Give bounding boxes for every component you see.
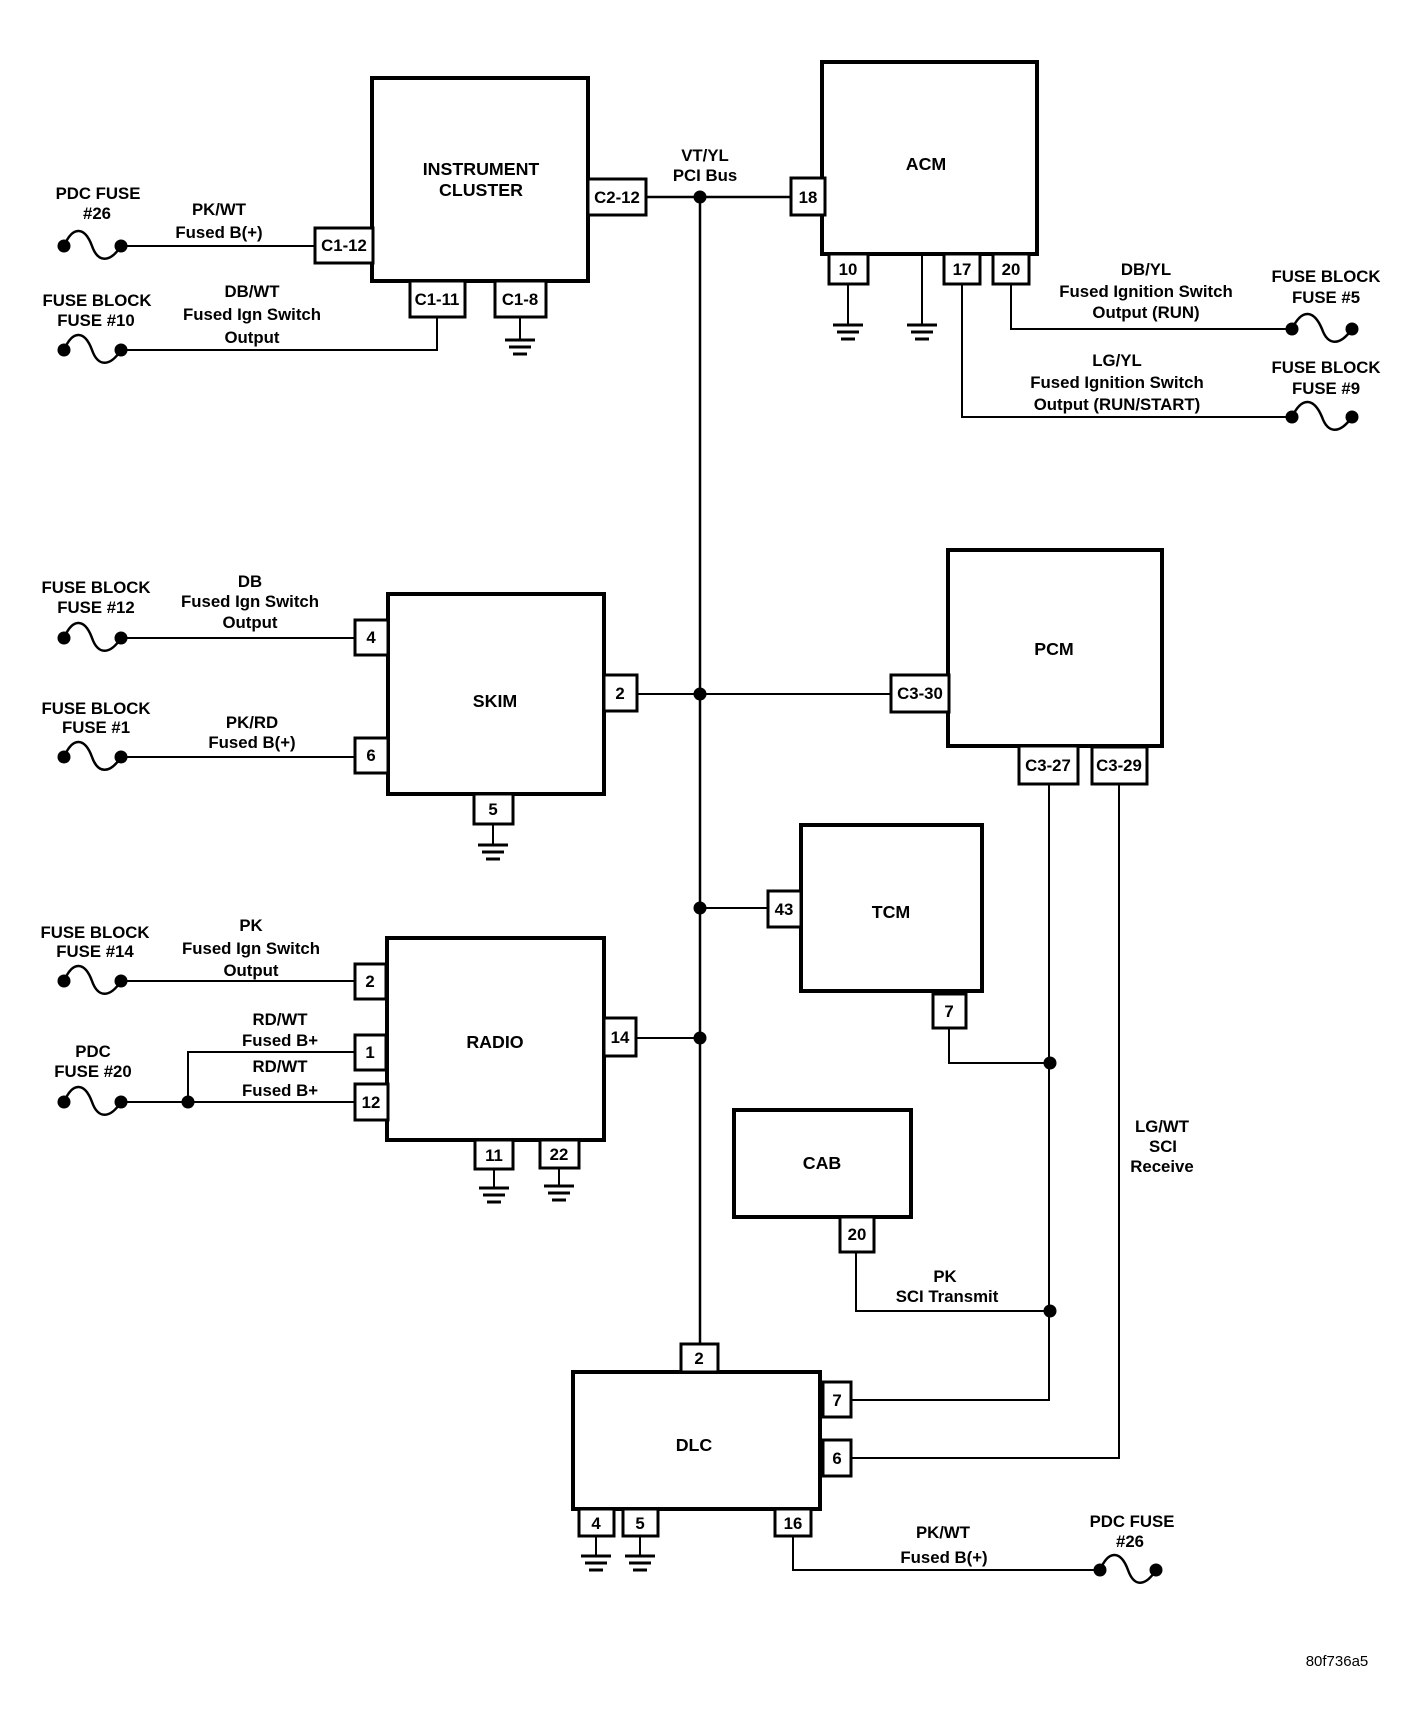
svg-text:FUSE BLOCK: FUSE BLOCK (41, 578, 150, 597)
svg-text:5: 5 (635, 1514, 644, 1533)
pin 5 (SKIM) (474, 794, 513, 824)
wire PCI bus : SKIM pin 2 to PCM C3-30 (637, 693, 891, 695)
svg-text:4: 4 (366, 628, 376, 647)
svg-text:#26: #26 (1116, 1532, 1144, 1551)
module ACM (822, 62, 1037, 254)
fuse FUSE BLOCK FUSE #1 (58, 742, 128, 770)
node SCI junction CAB transmit (1044, 1305, 1057, 1318)
svg-text:43: 43 (775, 900, 794, 919)
svg-text:Output: Output (224, 961, 279, 980)
svg-text:4: 4 (591, 1514, 601, 1533)
module TCM (801, 825, 982, 991)
svg-text:SCI Transmit: SCI Transmit (896, 1287, 999, 1306)
pin 43 (TCM) (768, 891, 801, 927)
svg-text:RD/WT: RD/WT (253, 1010, 309, 1029)
svg-text:6: 6 (832, 1449, 841, 1468)
pin 2 (DLC) (681, 1344, 718, 1372)
svg-text:FUSE BLOCK: FUSE BLOCK (42, 291, 151, 310)
svg-text:FUSE BLOCK: FUSE BLOCK (40, 923, 149, 942)
pin C1-11 (cluster) (410, 281, 465, 317)
svg-text:Fused Ignition Switch: Fused Ignition Switch (1030, 373, 1203, 392)
svg-text:VT/YL: VT/YL (681, 146, 729, 165)
ground DLC pin 5 (625, 1556, 655, 1570)
pin 10 (ACM) (829, 254, 868, 284)
pin 20 (CAB) (840, 1217, 874, 1252)
wire DB Fused Ign Switch Output : fuse 12 to SKIM pin 4 (122, 637, 355, 639)
pin 4 (SKIM) (355, 620, 388, 655)
fuse PDC FUSE #26 (top left) (58, 231, 128, 259)
pin 20 (ACM) (993, 254, 1029, 284)
ground RADIO pin 22 (544, 1186, 574, 1200)
svg-text:FUSE #10: FUSE #10 (57, 311, 134, 330)
wire cluster C1-8 to ground (519, 317, 521, 340)
svg-text:11: 11 (485, 1146, 503, 1165)
pin C2-12 (cluster) (588, 179, 646, 215)
pin 6 (DLC) (823, 1440, 851, 1476)
svg-text:7: 7 (832, 1391, 841, 1410)
wire PK Fused Ign Switch Output : fuse 14 to RADIO pin 2 (122, 980, 355, 982)
pin 22 (RADIO) (540, 1140, 579, 1168)
svg-text:C3-29: C3-29 (1096, 756, 1142, 775)
wire VT/YL PCI bus vertical trunk (699, 197, 702, 1344)
fuse PDC FUSE #26 (bottom) (1094, 1555, 1163, 1583)
fuse FUSE BLOCK FUSE #5 (1286, 314, 1359, 342)
wire DB/YL Fused Ignition Switch Output (RUN) : ACM 20 to fuse 5 (1011, 284, 1292, 329)
svg-text:PK: PK (239, 916, 262, 935)
svg-text:C2-12: C2-12 (594, 188, 640, 207)
svg-text:Fused B(+): Fused B(+) (175, 223, 262, 242)
svg-text:#26: #26 (83, 204, 111, 223)
svg-text:C3-30: C3-30 (897, 684, 943, 703)
wire PK SCI Transmit : CAB pin 20 to C3-27 line (856, 1252, 1050, 1311)
svg-text:22: 22 (550, 1145, 569, 1164)
svg-text:INSTRUMENT: INSTRUMENT (423, 159, 540, 179)
svg-text:C1-12: C1-12 (321, 236, 367, 255)
wire RD/WT Fused B+ branch to RADIO pin 1 (188, 1052, 355, 1102)
ground cluster C1-8 (505, 340, 535, 354)
pin 5 (DLC) (623, 1509, 658, 1536)
fuse FUSE BLOCK FUSE #10 (58, 335, 128, 363)
svg-text:Fused Ign Switch: Fused Ign Switch (181, 592, 319, 611)
wire LG/WT SCI Receive : PCM C3-29 to DLC pin 6 (851, 784, 1119, 1458)
wire SKIM pin 5 to ground (492, 824, 494, 845)
svg-text:PDC: PDC (75, 1042, 110, 1061)
wire PCI bus : RADIO pin 14 to trunk (636, 1037, 700, 1039)
svg-text:2: 2 (615, 684, 624, 703)
pin 2 (SKIM) (604, 675, 637, 711)
svg-text:FUSE #14: FUSE #14 (56, 942, 134, 961)
svg-text:DB: DB (238, 572, 262, 591)
svg-text:DLC: DLC (676, 1435, 713, 1455)
svg-text:12: 12 (362, 1093, 381, 1112)
svg-text:17: 17 (953, 260, 972, 279)
svg-text:ACM: ACM (906, 154, 947, 174)
svg-text:PK/RD: PK/RD (226, 713, 278, 732)
module INSTRUMENT CLUSTER (372, 78, 588, 281)
pin 12 (RADIO) (355, 1084, 388, 1120)
svg-text:Fused Ign Switch: Fused Ign Switch (182, 939, 320, 958)
wire PCI bus : cluster C2-12 to ACM pin 18 (646, 196, 791, 199)
pin C1-8 (cluster) (495, 281, 546, 317)
svg-text:PDC FUSE: PDC FUSE (1090, 1512, 1175, 1531)
svg-text:FUSE #20: FUSE #20 (54, 1062, 131, 1081)
node PCI bus junction at RADIO (694, 1032, 707, 1045)
pin C1-12 (cluster) (315, 228, 373, 263)
fuse FUSE BLOCK FUSE #14 (58, 966, 128, 994)
svg-text:18: 18 (799, 188, 818, 207)
svg-text:RADIO: RADIO (466, 1032, 523, 1052)
pin 7 (TCM) (933, 994, 966, 1028)
wire LG/YL Fused Ignition Switch Output (RUN/START) : ACM 17 to fuse 9 (962, 284, 1292, 417)
pin 16 (DLC) (775, 1509, 811, 1536)
wire RADIO pin 11 to ground (493, 1169, 495, 1188)
ground SKIM pin 5 (478, 845, 508, 859)
pin 17 (ACM) (944, 254, 980, 284)
pin 4 (DLC) (579, 1509, 614, 1536)
svg-text:CAB: CAB (803, 1153, 842, 1173)
svg-text:6: 6 (366, 746, 375, 765)
pin C3-27 (PCM) (1019, 746, 1078, 784)
svg-text:FUSE BLOCK: FUSE BLOCK (1271, 267, 1380, 286)
svg-text:Output: Output (223, 613, 278, 632)
module SKIM (388, 594, 604, 794)
svg-text:DB/YL: DB/YL (1121, 260, 1171, 279)
svg-text:LG/WT: LG/WT (1135, 1117, 1190, 1136)
svg-text:2: 2 (365, 972, 374, 991)
node junction PDC fuse 20 branch (182, 1096, 195, 1109)
svg-text:PDC FUSE: PDC FUSE (56, 184, 141, 203)
wire RADIO pin 22 to ground (558, 1168, 560, 1186)
svg-text:80f736a5: 80f736a5 (1306, 1653, 1369, 1670)
wire PK/WT Fused B(+) : DLC pin 16 to PDC fuse 26 (793, 1536, 1098, 1570)
wire PK/RD Fused B(+) : fuse 1 to SKIM pin 6 (122, 756, 355, 758)
svg-text:16: 16 (784, 1514, 803, 1533)
svg-text:FUSE #9: FUSE #9 (1292, 379, 1360, 398)
svg-text:Output (RUN/START): Output (RUN/START) (1034, 395, 1201, 414)
svg-text:Output (RUN): Output (RUN) (1092, 303, 1199, 322)
svg-text:TCM: TCM (872, 902, 911, 922)
wire ACM pin 10 to ground (847, 284, 849, 325)
node PCI bus junction at SKIM/PCM (694, 688, 707, 701)
svg-text:FUSE #12: FUSE #12 (57, 598, 134, 617)
svg-text:C3-27: C3-27 (1025, 756, 1071, 775)
fuse FUSE BLOCK FUSE #12 (58, 623, 128, 651)
svg-text:5: 5 (488, 800, 497, 819)
wire DLC pin 5 to ground (639, 1536, 641, 1556)
module PCM (948, 550, 1162, 746)
svg-text:20: 20 (1002, 260, 1021, 279)
node PCI bus junction at TCM (694, 902, 707, 915)
svg-text:Receive: Receive (1130, 1157, 1193, 1176)
wire ACM case to ground (921, 254, 923, 325)
svg-text:FUSE #1: FUSE #1 (62, 718, 130, 737)
svg-text:C1-11: C1-11 (415, 290, 460, 309)
svg-text:LG/YL: LG/YL (1092, 351, 1141, 370)
wire TCM pin 7 to PCM C3-27 line (949, 1028, 1050, 1063)
svg-text:PK: PK (933, 1267, 956, 1286)
pin 6 (SKIM) (355, 738, 388, 773)
fuse FUSE BLOCK FUSE #9 (1286, 402, 1359, 430)
ground RADIO pin 11 (479, 1188, 509, 1202)
ground ACM case (907, 325, 937, 339)
svg-text:FUSE BLOCK: FUSE BLOCK (41, 699, 150, 718)
svg-text:SKIM: SKIM (473, 691, 517, 711)
svg-text:Fused B(+): Fused B(+) (208, 733, 295, 752)
ground DLC pin 4 (581, 1556, 611, 1570)
svg-text:PCI Bus: PCI Bus (673, 166, 737, 185)
pin C3-29 (PCM) (1092, 747, 1147, 784)
svg-text:PK/WT: PK/WT (192, 200, 247, 219)
svg-text:20: 20 (848, 1225, 867, 1244)
wire RD/WT Fused B+ : PDC fuse 20 to RADIO pin 12 (122, 1101, 355, 1103)
svg-text:14: 14 (611, 1028, 630, 1047)
node SCI junction TCM pin 7 (1044, 1057, 1057, 1070)
wire PCM C3-27 to DLC pin 7 (851, 784, 1049, 1400)
module RADIO (387, 938, 604, 1140)
svg-text:7: 7 (944, 1002, 953, 1021)
node PCI bus junction at C2-12/ACM (694, 191, 707, 204)
svg-text:C1-8: C1-8 (502, 290, 538, 309)
wire DB/WT Fused Ign Switch Output : fuse 10 to cluster C1-11 (122, 317, 437, 350)
wire PK/WT Fused B(+) : PDC fuse 26 to cluster C1-12 (122, 245, 315, 247)
pin C3-30 (PCM) (891, 675, 949, 712)
pin 7 (DLC) (823, 1382, 851, 1417)
pin 14 (RADIO) (604, 1018, 636, 1056)
wire DLC pin 4 to ground (595, 1536, 597, 1556)
svg-text:Fused B(+): Fused B(+) (900, 1548, 987, 1567)
module CAB (734, 1110, 911, 1217)
pin 18 (ACM) (791, 178, 825, 215)
svg-text:Fused B+: Fused B+ (242, 1081, 318, 1100)
svg-text:DB/WT: DB/WT (225, 282, 281, 301)
svg-text:10: 10 (839, 260, 858, 279)
module DLC (573, 1372, 820, 1509)
svg-text:PK/WT: PK/WT (916, 1523, 971, 1542)
svg-text:RD/WT: RD/WT (253, 1057, 309, 1076)
svg-text:1: 1 (365, 1043, 374, 1062)
svg-text:Fused B+: Fused B+ (242, 1031, 318, 1050)
svg-text:SCI: SCI (1149, 1137, 1177, 1156)
pin 2 (RADIO) (355, 964, 386, 999)
svg-text:Fused Ignition Switch: Fused Ignition Switch (1059, 282, 1232, 301)
pin 1 (RADIO) (355, 1035, 386, 1070)
svg-text:FUSE #5: FUSE #5 (1292, 288, 1360, 307)
pin 11 (RADIO) (475, 1140, 513, 1169)
ground ACM pin 10 (833, 325, 863, 339)
svg-text:PCM: PCM (1034, 639, 1074, 659)
svg-text:Output: Output (225, 328, 280, 347)
svg-text:2: 2 (694, 1349, 703, 1368)
svg-text:Fused Ign Switch: Fused Ign Switch (183, 305, 321, 324)
wire PCI bus : trunk to TCM pin 43 (700, 907, 767, 909)
svg-text:FUSE BLOCK: FUSE BLOCK (1271, 358, 1380, 377)
svg-text:CLUSTER: CLUSTER (439, 180, 523, 200)
fuse PDC FUSE #20 (58, 1087, 128, 1115)
